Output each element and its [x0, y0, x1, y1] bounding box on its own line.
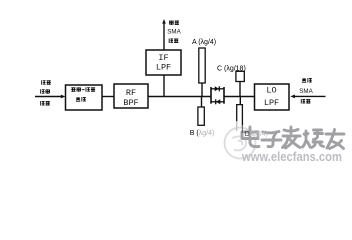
svg-text:λg/4): λg/4): [199, 130, 215, 137]
svg-text:SMA: SMA: [299, 88, 313, 95]
filter IF LPF: [146, 50, 181, 75]
wire main line right: [224, 96, 255, 98]
svg-text:SMA: SMA: [167, 29, 181, 36]
RF input label 射频信号输入: [41, 80, 51, 105]
anti-parallel diode pair: [211, 87, 224, 104]
wire main line left: [148, 96, 212, 98]
svg-text:IF: IF: [158, 53, 168, 63]
svg-text:A (λg/4): A (λg/4): [192, 39, 216, 46]
diode D1 top: [215, 86, 220, 91]
wire RF input with arrow: [35, 95, 65, 99]
wire IF LPF to main line: [163, 75, 165, 97]
LO input label 本振 SMA 输入: [299, 78, 313, 104]
svg-text:RF: RF: [126, 88, 136, 98]
stub B shorted stub: [198, 97, 204, 126]
svg-text:BPF: BPF: [123, 98, 138, 108]
label B (λg/4): [190, 130, 215, 137]
svg-text:(λg/4): (λg/4): [250, 131, 268, 138]
svg-text:LO: LO: [266, 85, 276, 95]
IF output label 中频 SMA 输出: [167, 20, 181, 43]
block microstrip transition 微带-槽线过渡: [66, 85, 103, 110]
svg-text:D: D: [245, 131, 250, 138]
stub D shorted stub: [237, 97, 243, 134]
wire LO input with arrow: [290, 95, 325, 99]
label D (λg/4): [245, 131, 268, 138]
filter RF BPF: [114, 84, 148, 108]
wire IF output with arrow: [162, 19, 166, 50]
wire transition to RF BPF: [102, 96, 114, 98]
stub A open stub: [199, 48, 205, 97]
svg-text:LPF: LPF: [264, 98, 279, 108]
svg-text:LPF: LPF: [156, 63, 171, 73]
filter LO LPF: [255, 84, 290, 110]
svg-text:www.elecfans.com: www.elecfans.com: [241, 149, 342, 164]
stub C open stub: [236, 71, 244, 96]
diode D2 bottom: [216, 99, 221, 104]
